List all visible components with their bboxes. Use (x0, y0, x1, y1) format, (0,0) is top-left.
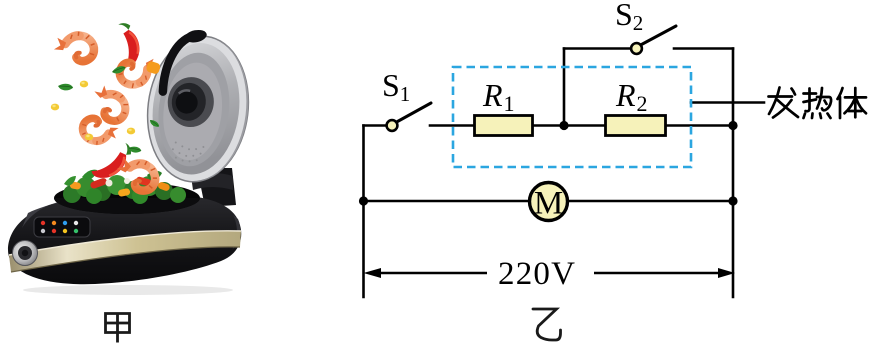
wire: bottom rail through motor (364, 200, 734, 203)
ground shadow (23, 285, 233, 295)
svg-text:R1: R1 (482, 77, 515, 116)
flying food (52, 30, 97, 65)
hub (165, 74, 217, 129)
food inside bowl (63, 170, 186, 204)
heater dashed enclosure (453, 67, 691, 167)
svg-text:S2: S2 (615, 0, 643, 35)
wire: top-right segment from S2 (674, 47, 733, 50)
node C (left rail at motor row) (359, 196, 368, 205)
wire: S1 to R1 (430, 124, 474, 127)
220V dimension arrows (364, 268, 736, 278)
switch S2 (631, 26, 676, 54)
appliance photo (panel 甲): cooking machine illustration (8, 22, 258, 295)
node A (junction between R1 and R2) (559, 121, 568, 130)
body (8, 194, 241, 284)
lid disc (139, 22, 257, 187)
发 (769, 88, 799, 118)
lid hinge arm (197, 168, 236, 207)
wire: R1 to R2 (534, 124, 606, 127)
label 乙 (caption of circuit), drawn strokes (533, 309, 561, 340)
resistor R1 (475, 116, 533, 136)
resistor R2 (606, 116, 666, 136)
wire: S1 feed from left vertical (364, 124, 387, 127)
svg-text:220V: 220V (498, 256, 576, 292)
wire: R2 to right vertical (667, 124, 733, 127)
svg-text:R2: R2 (615, 77, 648, 116)
knob (13, 241, 38, 266)
wire: left vertical conductor (362, 126, 365, 298)
switch S1 (387, 103, 431, 131)
热 (804, 88, 832, 118)
wire: heater callout line (691, 101, 764, 104)
label 甲 (caption of photo) (106, 314, 130, 343)
motor M (530, 183, 568, 222)
wire: S2 branch drop to node A (563, 49, 566, 126)
wire: top-left segment to S2 (564, 47, 631, 50)
control panel (34, 217, 90, 237)
metallic band (9, 231, 241, 272)
svg-text:S1: S1 (382, 67, 410, 106)
handle (163, 33, 193, 94)
体 (838, 88, 867, 118)
node B (right rail at heater row) (728, 121, 737, 130)
svg-text:M: M (534, 186, 563, 222)
pepper + shrimp at pot rim (86, 142, 137, 182)
label 发热体 (heating element), drawn strokes (769, 88, 867, 119)
wire: right vertical conductor (732, 49, 735, 298)
bowl opening (54, 182, 200, 214)
node D (right rail at motor row) (728, 196, 737, 205)
